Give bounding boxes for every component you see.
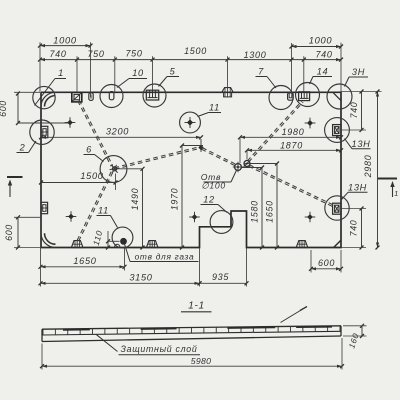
svg-text:1870: 1870 bbox=[280, 141, 303, 151]
embed plate item 2-style at x=77 (top edge) bbox=[72, 92, 82, 102]
dim row tick at x=77 bbox=[75, 58, 79, 62]
dim 110 (rot) bbox=[107, 241, 109, 247]
callout circle 7 bbox=[269, 86, 293, 110]
dim row tick at x=114.8 bbox=[113, 58, 117, 62]
svg-text:1-1: 1-1 bbox=[188, 301, 205, 312]
dim 740 right top (rot) bbox=[361, 92, 363, 131]
slot inside circle 10 bbox=[109, 92, 114, 100]
callout circle 12 bbox=[210, 211, 233, 234]
gas hole dot (123.5,241.5) bbox=[120, 238, 127, 245]
small slot at x=91 (top edge) bbox=[89, 93, 93, 101]
sling line circle6 to apex (dashed) bbox=[115, 148, 201, 169]
section leader to mesh (pos 1) bbox=[281, 310, 303, 323]
extension line x=40 bbox=[39, 42, 41, 92]
section mesh second line bbox=[42, 331, 341, 335]
svg-text:600: 600 bbox=[318, 258, 335, 268]
extension below circle6 bbox=[115, 174, 117, 191]
svg-text:1490: 1490 bbox=[130, 188, 140, 210]
dim 1870 anchor to right edge bbox=[247, 149, 341, 151]
svg-text:10: 10 bbox=[132, 68, 144, 78]
fixing point dot at (310,123) bbox=[307, 120, 313, 126]
fixing point dot at (194.5,217) bbox=[192, 214, 198, 220]
extension line x=303.8 bbox=[303, 56, 305, 92]
section mesh ticks bbox=[42, 329, 44, 335]
svg-text:отв для газа: отв для газа bbox=[135, 251, 195, 261]
svg-text:740: 740 bbox=[349, 220, 359, 237]
dim 1980 hole to right edge bbox=[240, 136, 341, 138]
top-right corner chamfer mark bbox=[333, 92, 341, 100]
svg-text:1580: 1580 bbox=[250, 200, 260, 222]
extension hole to 1980 bbox=[239, 137, 241, 163]
svg-text:740: 740 bbox=[349, 102, 359, 119]
fixing point dot at (190,122.5) inside circle 11 bbox=[187, 119, 193, 125]
dim row tick at x=152.5 bbox=[151, 58, 155, 62]
svg-text:3200: 3200 bbox=[106, 126, 129, 136]
svg-text:Защитный слой: Защитный слой bbox=[121, 344, 198, 354]
callout circle 6 bbox=[100, 156, 127, 183]
callout circle 13Н upper bbox=[325, 118, 350, 143]
slot inside circle 7 bbox=[288, 93, 294, 100]
svg-text:14: 14 bbox=[317, 67, 329, 77]
section mark 1 right bbox=[378, 178, 397, 180]
hole Отв ∅100 symbol at (238,167) bbox=[235, 164, 242, 171]
dim 5980 section bbox=[42, 365, 342, 367]
dim 935 bbox=[200, 282, 247, 284]
svg-text:1300: 1300 bbox=[244, 50, 267, 60]
svg-text:6: 6 bbox=[86, 145, 92, 155]
svg-text:1500: 1500 bbox=[184, 46, 207, 56]
anchor on bottom edge at x=77.2 (hatched trapezoid) bbox=[71, 241, 83, 248]
dim 1000 top-left bbox=[40, 45, 91, 47]
svg-text:2980: 2980 bbox=[363, 155, 373, 179]
section mark 1 left bbox=[7, 176, 23, 178]
svg-text:1500: 1500 bbox=[80, 171, 103, 181]
svg-text:750: 750 bbox=[125, 49, 142, 59]
embed item 2 on left edge bbox=[41, 126, 48, 137]
svg-text:13Н: 13Н bbox=[348, 183, 367, 193]
callout circle 10 bbox=[100, 85, 123, 108]
leader Защитный слой bbox=[96, 334, 118, 351]
svg-text:12: 12 bbox=[203, 195, 215, 205]
panel outline (plan view) with stepped bottom notch bbox=[41, 92, 341, 247]
top-left corner fillet arcs bbox=[41, 92, 56, 106]
svg-text:1970: 1970 bbox=[170, 188, 180, 210]
extension line x=77 bbox=[76, 56, 78, 92]
sling line anchor to 13Н lower (dashed) bbox=[249, 166, 334, 207]
svg-text:1000: 1000 bbox=[309, 36, 333, 46]
callout circle 2 left edge bbox=[30, 120, 54, 144]
section mesh dark strands bbox=[63, 329, 90, 331]
embed 13Н lower on right edge bbox=[333, 203, 341, 214]
fixing point dot at (310,217) bbox=[307, 214, 313, 220]
svg-text:1650: 1650 bbox=[265, 200, 275, 222]
sling line anchor to item14 (dashed) bbox=[249, 102, 304, 162]
extension line x=291.5 bbox=[291, 43, 293, 93]
dim 3200 to apex bbox=[41, 136, 201, 138]
dim row arrows bbox=[40, 58, 45, 61]
svg-text:2: 2 bbox=[19, 143, 26, 153]
fixing point row top: dot at (70,122.5) bbox=[67, 120, 73, 126]
anchor point symbol at (247,163.5) bbox=[244, 161, 250, 167]
dim 1970 (rot) bbox=[181, 146, 183, 248]
svg-text:5980: 5980 bbox=[191, 356, 212, 366]
dim 1580 (rot) bbox=[261, 168, 263, 248]
svg-text:3150: 3150 bbox=[129, 273, 152, 283]
dim 1650 bottom bbox=[41, 266, 125, 268]
extension line x=90.5 bbox=[90, 42, 92, 97]
embed item 5 (box with ribs) on top edge bbox=[146, 90, 158, 100]
dim 600 left bottom bbox=[17, 217, 19, 247]
svg-text:11: 11 bbox=[209, 103, 220, 113]
dim 160 section (rot) bbox=[361, 326, 363, 336]
dim 1650 vertical (rot) bbox=[276, 164, 278, 248]
sling line top-left plate down to circle 6 (dashed) bbox=[78, 101, 111, 166]
apex diamond marker at (201,147.5) bbox=[198, 145, 203, 150]
dim row tick at x=40 bbox=[38, 58, 42, 62]
anchor on bottom edge at x=302 (hatched trapezoid) bbox=[296, 241, 308, 248]
callout circle 3Н bbox=[327, 84, 352, 109]
callout circle 11 bottom bbox=[112, 227, 133, 248]
fixing point dot at (71,216.5) bbox=[68, 214, 74, 220]
embed 13Н upper on right edge bbox=[333, 125, 341, 136]
svg-text:11: 11 bbox=[98, 206, 109, 216]
anchor at x=227 (top edge, hatched trapezoid) bbox=[222, 88, 233, 93]
callout circle 1 top-left corner bbox=[33, 86, 55, 108]
dim 740 right bottom (rot) bbox=[361, 209, 363, 248]
extension line x=341 bbox=[340, 43, 342, 93]
callout circle 11 top bbox=[180, 112, 201, 133]
bottom-right corner chamfer bbox=[334, 240, 341, 247]
svg-text:1980: 1980 bbox=[282, 127, 305, 137]
svg-text:750: 750 bbox=[87, 49, 104, 59]
dim 3150 bbox=[41, 282, 200, 284]
extension anchor to 1870 bbox=[246, 150, 248, 159]
svg-text:1650: 1650 bbox=[73, 256, 96, 266]
svg-text:740: 740 bbox=[315, 49, 332, 59]
bottom-left corner fillet arcs bbox=[41, 233, 56, 247]
extension line x=114.8 bbox=[114, 56, 116, 92]
svg-text:600: 600 bbox=[4, 224, 14, 241]
embed item 14 (box with ribs) on top edge bbox=[299, 92, 310, 101]
sling line apex to hole (dashed) bbox=[202, 149, 237, 166]
dim 1000 top-right bbox=[292, 46, 342, 48]
dim row tick at x=291.5 bbox=[290, 58, 294, 62]
dim 1490 (rot) bbox=[142, 169, 144, 248]
anchor on bottom edge at x=152.2 (hatched trapezoid) bbox=[146, 241, 158, 248]
dim 2980 (rot) bbox=[377, 92, 379, 248]
callout circle 5 bbox=[143, 84, 166, 107]
dim 600 left top bbox=[17, 94, 19, 124]
dim row 740+750+750+1500+1300+740 line bbox=[40, 59, 341, 61]
embed on left edge lower bbox=[41, 202, 48, 213]
svg-text:1: 1 bbox=[58, 68, 64, 78]
dim row tick at x=303.8 bbox=[302, 58, 306, 62]
dim 1500 left edge to circle6 bbox=[41, 182, 116, 184]
extension line x=152.5 bbox=[152, 56, 154, 90]
section slab outline bbox=[42, 326, 341, 329]
dim row tick at x=341 bbox=[339, 58, 343, 62]
dim 600 bottom right bbox=[311, 268, 341, 270]
callout circle 13Н lower bbox=[325, 196, 349, 220]
callout circle 14 bbox=[296, 83, 320, 107]
pinwheel mark at circle 6 centre bbox=[112, 167, 116, 171]
svg-text:1: 1 bbox=[394, 189, 399, 198]
svg-text:13Н: 13Н bbox=[352, 139, 371, 149]
svg-text:7: 7 bbox=[258, 67, 264, 77]
svg-text:935: 935 bbox=[212, 272, 229, 282]
sling line circle 6 down to bottom-left anchor (dashed) bbox=[77, 172, 111, 241]
dim row tick at x=227.5 bbox=[226, 58, 230, 62]
svg-text:600: 600 bbox=[0, 100, 8, 117]
svg-text:1000: 1000 bbox=[53, 35, 77, 45]
svg-text:3Н: 3Н bbox=[352, 67, 365, 77]
svg-text:5: 5 bbox=[170, 67, 176, 77]
svg-text:740: 740 bbox=[49, 49, 66, 59]
extension line x=227.5 bbox=[227, 56, 229, 88]
